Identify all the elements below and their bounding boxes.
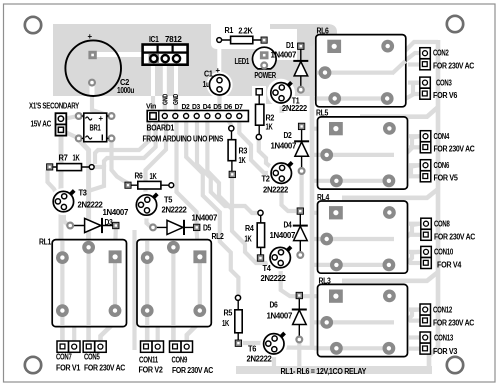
diode D5 1N4007 [150,214,218,236]
wire RL1 left column [60,250,65,343]
svg-text:T4: T4 [263,264,272,273]
wire D1 anode to RL6 coil [305,88,317,92]
svg-text:Vin: Vin [146,104,156,111]
svg-text:CON4: CON4 [434,132,450,141]
svg-text:R5: R5 [224,309,233,318]
svg-text:FOR V1: FOR V1 [56,364,81,373]
connector CON10 [421,246,462,269]
connector CON11 [139,341,164,375]
connector X1 15V AC [29,102,80,136]
svg-text:GND: GND [173,94,180,105]
connector CON2 [420,48,475,71]
transistor T2 2N2222 [262,161,294,195]
wire T6 emitter to ground bus [272,352,276,366]
svg-text:POWER: POWER [254,71,276,80]
wire between RL1 and RL2 [132,230,136,350]
mounting hole top-right [447,16,463,32]
svg-text:1N4007: 1N4007 [270,231,296,240]
wire IC1 pin1 to header Vin [151,96,155,112]
wire right bus top corner [398,42,438,58]
wire RL2 to CON11 pin2 [156,327,160,344]
wire RL4 to CON8 [405,224,420,239]
wire D5 cathode to RL2 coil [197,231,198,250]
svg-text:FOR 230V AC: FOR 230V AC [172,366,214,375]
wire RL2 right column to CON9 [187,263,200,343]
relay RL4 [317,193,408,273]
wire CON6 stubs [409,163,421,167]
svg-text:D4: D4 [284,221,293,230]
wire RL6 to CON2 [393,53,420,73]
relay RL1 [39,238,127,327]
svg-text:X1'S SECONDARY: X1'S SECONDARY [29,102,80,111]
svg-text:D5: D5 [203,224,212,233]
relay RL3 [318,277,408,357]
bridge rectifier BR1 [76,113,115,142]
svg-text:CON9: CON9 [172,356,188,365]
svg-text:+: + [88,32,93,41]
relay RL6 [316,27,406,107]
trace cutout white around R2 top pad [252,86,266,104]
wire CON10 stubs [409,250,421,254]
regulator IC1 7812 [143,35,188,65]
wire C2- to BR1 + pin [92,96,107,115]
svg-text:2N2222: 2N2222 [261,274,287,283]
wire RL3 coil pad [313,294,329,298]
wire bus gap RL5-RL4 [342,189,438,198]
mounting hole bottom-right [447,357,463,373]
svg-text:R4: R4 [245,224,254,233]
wire T2 collector to D4 [282,185,297,211]
wire CON4 stub2 [409,145,421,149]
svg-text:R1: R1 [225,26,234,35]
connector CON3 [420,77,458,100]
wire CON13 stubs [409,335,420,339]
svg-text:BOARD1: BOARD1 [147,124,175,133]
connector CON5 [83,341,125,373]
wire RL2 centre column [171,247,176,343]
trace cutout white around D1 labels [266,29,297,60]
svg-text:T3: T3 [79,189,88,198]
capacitor C2 [65,32,134,96]
wire R1 right pad to LED anode (white on pour) [263,43,266,52]
wire 12V rail along relays [310,46,315,348]
wire T1 emitter down [280,100,284,113]
svg-text:FOR V2: FOR V2 [139,366,164,375]
wire R3 bottom staircase to T4 [232,177,268,263]
wire CON8 stubs [409,222,421,226]
resistor R2 1K [256,89,275,140]
svg-text:RL1- RL6 = 12V,1CO RELAY: RL1- RL6 = 12V,1CO RELAY [281,367,367,376]
connector CON13 [420,332,458,356]
resistor R6 1K [125,172,174,190]
svg-text:FOR 230V AC: FOR 230V AC [433,62,475,71]
transistor T1 2N2222 [269,81,308,113]
svg-text:1K: 1K [73,154,80,163]
wire RL3 bottom row [314,346,389,350]
wire C2- down (white on pour) [90,84,95,96]
wire RL6 bottom row [313,96,388,100]
wire RL1 to CON7 pin2 [72,327,76,344]
svg-text:FOR V4: FOR V4 [437,261,462,270]
svg-text:15V AC: 15V AC [31,120,52,129]
svg-text:2N2222: 2N2222 [78,201,104,210]
wire RL1 right column to CON5 [101,263,116,343]
wire RL6 bottom to CON3 [388,94,420,99]
svg-text:1N4007: 1N4007 [271,142,297,151]
svg-text:FOR 230V AC: FOR 230V AC [433,319,475,328]
resistor R1 2.2K [217,26,267,44]
svg-text:T5: T5 [164,196,173,205]
wire RL4 bottom row [314,263,389,267]
transistor T6 2N2222 [247,332,286,364]
wire BR1 minus down to R6 [112,141,129,183]
connector CON4 [420,131,475,154]
svg-text:FOR 230V AC: FOR 230V AC [434,233,476,242]
svg-text:1K: 1K [150,172,157,181]
connector CON7 [56,341,81,373]
resistor R3 1K [228,126,248,178]
wire R7 right pad to T3 [82,167,104,193]
wire RL4 coil pad [313,211,329,215]
wire C2+ to IC1 input (white on pour) [96,52,152,57]
svg-text:CON5: CON5 [84,353,100,362]
svg-text:FROM ARDUINO UNO PINS: FROM ARDUINO UNO PINS [143,135,224,144]
svg-text:1K: 1K [222,319,229,328]
resistor R5 1K [222,295,242,346]
wire RL5 to CON4 [405,136,420,155]
svg-text:1N4007: 1N4007 [267,312,293,321]
wire header D3 to D5 pad [177,121,197,224]
diode D2 1N4007 [271,123,310,174]
wire T6 to RL3 [280,345,336,350]
relay RL2 [137,232,224,327]
svg-text:CON10: CON10 [434,248,454,257]
connector CON6 [420,160,458,183]
wire BR1 to RL1 centre pad [79,140,89,242]
wire X1 pin2 to BR1 ac [63,131,78,138]
svg-text:FOR 230V AC: FOR 230V AC [84,364,126,373]
svg-text:R7: R7 [59,154,69,163]
wire R2 bottom to T2 [259,139,272,168]
wire T5 emitter to D5 [147,212,152,227]
wire D2 anode to D4 [300,174,304,207]
wire IC1 pin2 to header GND [163,96,167,112]
svg-text:1K: 1K [266,123,273,132]
resistor R4 1K [245,210,265,261]
wire RL4 centre row [314,237,389,241]
svg-text:2.2K: 2.2K [238,27,253,36]
wire header to T5 [146,121,167,196]
wire RL5 centre row [314,153,389,157]
svg-text:CON3: CON3 [436,79,452,88]
wire header D2 staircase to R5 [186,121,238,297]
svg-text:RL1: RL1 [39,238,52,247]
transistor T3 2N2222 [51,189,103,214]
wire CON12 stubs [409,307,420,311]
wire header D7 to T2 [239,121,272,173]
svg-text:D6: D6 [270,301,279,310]
svg-text:CON2: CON2 [433,49,449,58]
wire R1 left pad to C1 (white on pour) [217,42,221,74]
wire RL3 to CON13 [413,83,420,94]
svg-text:CON8: CON8 [434,220,450,229]
svg-text:FOR 230V AC: FOR 230V AC [434,145,476,154]
svg-text:2N2222: 2N2222 [263,186,289,195]
wire IC1 pin1 column (white on pour) [151,65,155,96]
wire R5 to T6 [243,341,265,345]
diode D1 1N4007 [271,41,309,93]
transistor T4 2N2222 [261,245,293,283]
wire RL4 to CON10 [405,252,420,265]
mounting hole bottom-left [25,357,41,373]
svg-text:1N4007: 1N4007 [271,51,297,60]
connector CON8 [421,218,476,241]
wire RL5 bottom row [314,179,389,183]
wire RL2 left column [145,250,150,343]
wire right bus vertical [429,40,438,368]
svg-text:CON7: CON7 [56,353,72,362]
wire RL6 coil pad [313,44,327,48]
diode D3 1N4007 [67,208,129,233]
svg-text:D2: D2 [284,131,293,140]
connector CON9 [170,341,214,375]
wire IC1 pin3 to header GND [174,96,178,112]
relay RL5 [316,109,408,190]
svg-text:FOR V6: FOR V6 [433,91,458,100]
wire CON13 stub2 [409,347,420,351]
svg-text:1K: 1K [245,235,252,244]
wire RL3 to CON12 [405,310,420,323]
svg-text:BR1: BR1 [90,123,102,132]
wire RL6 centre row [313,70,393,74]
svg-text:2N2222: 2N2222 [247,355,273,364]
svg-text:1N4007: 1N4007 [103,208,129,217]
header BOARD1 [146,94,248,133]
svg-text:T2: T2 [262,175,271,184]
wire RL3 centre row [314,320,389,324]
wire IC1 pin3 column (white on pour) [174,65,178,96]
wire CON3 stub [408,80,420,84]
svg-text:RL2: RL2 [212,232,225,241]
wire CON12 stub2 [409,319,420,323]
wire T3 emitter to D3 [64,210,68,225]
resistor R7 1K [47,154,95,171]
wire CON6 stub2 [409,174,421,178]
wire ground bus bottom [236,366,432,374]
svg-text:2N2222: 2N2222 [162,206,188,215]
node FROM ARDUINO UNO PINS [143,135,224,144]
svg-text:CON6: CON6 [434,161,450,170]
wire T4 emitter down to RL3 coil [281,265,313,296]
svg-text:T6: T6 [248,345,257,354]
wire X1 column down to RL1 pad [59,134,64,252]
svg-text:FOR V5: FOR V5 [434,174,459,183]
wire bus gap RL4-RL3 [342,272,438,281]
svg-text:2N2222: 2N2222 [282,104,308,113]
wire D6 anode down [297,343,301,366]
wire D3 cathode to RL1 coil [113,229,118,251]
wire header D4 staircase to R4 [197,121,261,213]
svg-text:GND: GND [162,94,169,105]
wire header D5 staircase [207,121,232,209]
wire CON10 stub2 [409,261,421,265]
LED1 POWER [235,47,277,80]
svg-text:CON12: CON12 [433,306,453,315]
svg-text:1000u: 1000u [117,86,134,95]
wire IC1 pin2 column (white on pour) [163,65,167,96]
svg-text:LED1: LED1 [235,57,250,66]
svg-text:+: + [99,114,104,123]
wire header to R7 left pad [95,121,149,164]
diode D6 1N4007 [267,292,307,342]
wire RL1 centre column [86,247,91,343]
svg-text:1K: 1K [239,156,246,165]
wire CON2 stub [408,62,420,66]
svg-text:R3: R3 [239,147,248,156]
connector CON12 [420,304,475,328]
svg-text:7812: 7812 [165,35,182,44]
svg-text:D1: D1 [286,41,295,50]
trace cutout white around T1 labels [285,96,318,113]
trace cutout white around C1 [207,72,233,98]
wire bus gap RL6-RL5 [360,107,438,117]
diode D4 1N4007 [270,208,308,258]
wire X1 pin1 to BR1 ac [63,116,78,119]
wire C1 minus to header [217,96,221,112]
capacitor C1 [203,66,230,95]
wire header D6 to R3 [229,121,231,128]
wire RL5 coil pad [313,127,329,131]
trace cutout white around R1 [211,19,270,49]
svg-text:R6: R6 [135,172,144,181]
trace cutout white around T1 [267,79,295,107]
wire header to R6 left pad [104,121,156,167]
wire R7 left pad down to T3 [48,170,58,195]
svg-text:+: + [216,66,221,75]
svg-text:IC1: IC1 [149,35,159,44]
wire CON4 stubs [409,134,421,138]
mounting hole top-left [25,17,41,33]
svg-text:CON13: CON13 [434,334,454,343]
wire CON8 stub2 [409,233,421,237]
wire RL5 to CON6 [411,165,420,176]
transistor T5 2N2222 [134,193,187,217]
svg-text:FOR V3: FOR V3 [433,347,458,356]
copper pour top-left [53,24,337,104]
svg-text:1N4007: 1N4007 [192,214,218,223]
svg-text:R2: R2 [266,114,275,123]
node RL1-RL6 relay note [281,367,367,376]
svg-text:CON11: CON11 [139,356,159,365]
